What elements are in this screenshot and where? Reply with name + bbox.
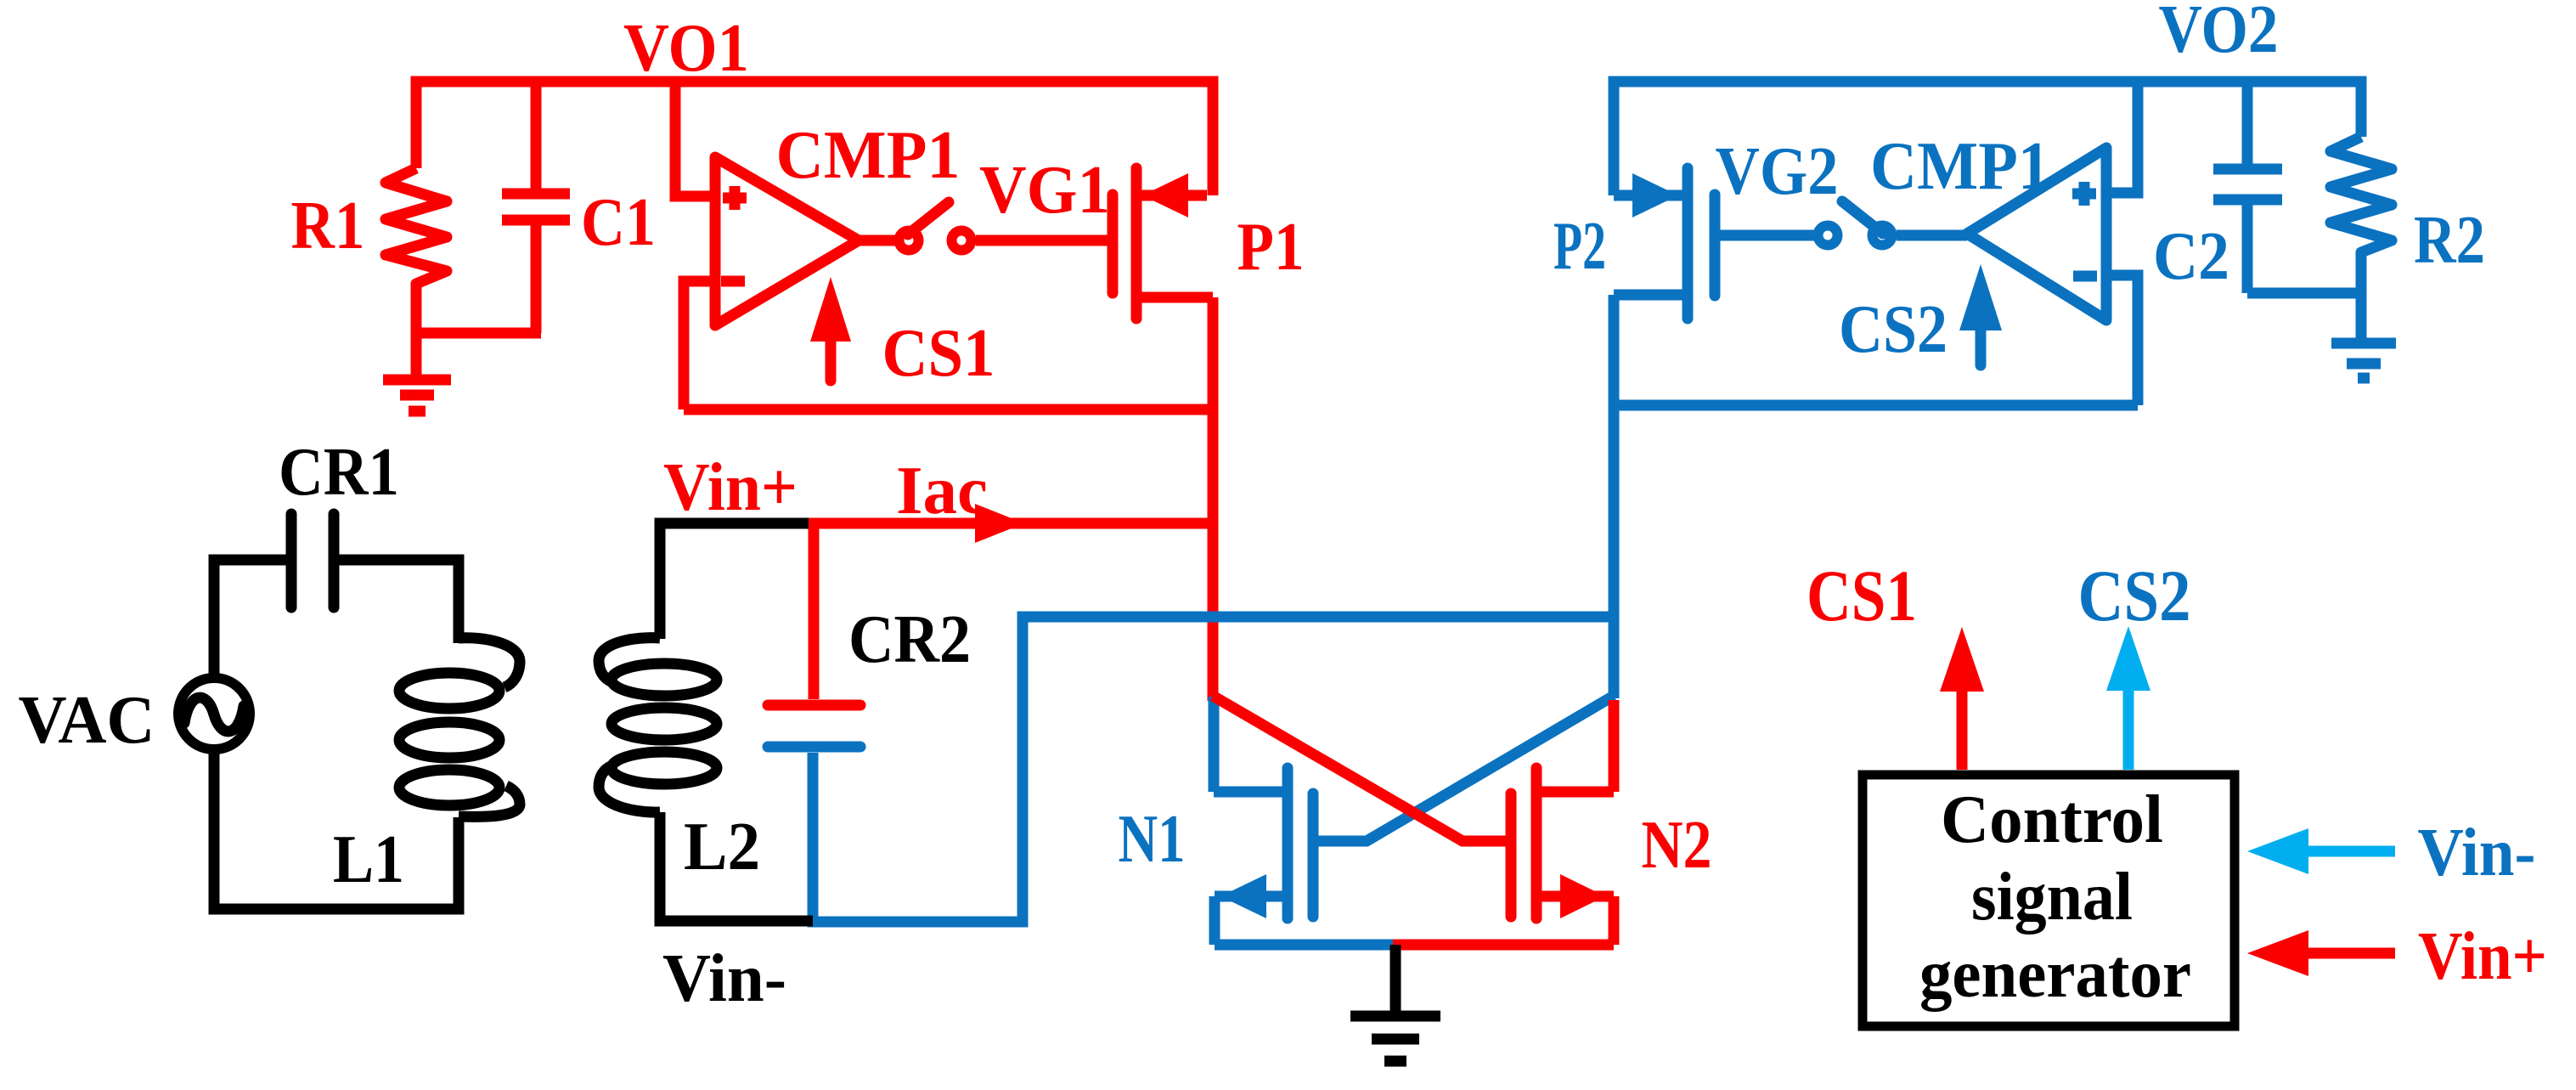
capacitor CR2 top plate	[768, 700, 860, 711]
CMP1 plus input mark	[723, 186, 747, 210]
wire VG2 gate lead	[1720, 230, 1814, 241]
arrow Iac direction	[975, 504, 1024, 543]
wire CMP1 output	[859, 235, 895, 246]
svg-text:CR2: CR2	[848, 602, 971, 677]
arrow CS2 output	[2106, 626, 2150, 770]
wire CR1 left	[214, 560, 286, 674]
svg-text:C1: C1	[581, 185, 656, 260]
capacitor C1	[502, 82, 570, 333]
svg-text:C2: C2	[2153, 219, 2229, 294]
wire VO2 top rail	[1614, 82, 2361, 195]
ground GND2	[2331, 343, 2396, 378]
svg-text:generator: generator	[1919, 937, 2191, 1012]
inductor L1	[399, 638, 520, 817]
svg-text:P2: P2	[1553, 209, 1606, 284]
wire P1 drain down	[1208, 297, 1219, 701]
wire N2 source to ground rail	[1393, 940, 1614, 951]
wire CMP1 -input	[684, 281, 715, 409]
CMP1b minus input mark	[2073, 271, 2097, 282]
svg-text:R2: R2	[2414, 203, 2485, 278]
wire CMP1b bottom rail	[1614, 400, 2138, 411]
wire N1 drain up	[1209, 697, 1220, 792]
source VAC	[178, 678, 250, 749]
wire N1 source to ground rail	[1215, 940, 1398, 951]
svg-text:CMP1: CMP1	[776, 118, 961, 193]
wire VAC to L1 bottom	[214, 754, 459, 909]
wire CR2 top lead	[809, 523, 820, 699]
wire R1-C1 bottom	[416, 328, 541, 339]
transistor N1	[1214, 768, 1313, 918]
svg-text:VG1: VG1	[979, 153, 1110, 228]
wire Iac	[807, 518, 1213, 529]
wire N1 gate diagonal	[1313, 696, 1614, 841]
ground GND1	[383, 333, 451, 411]
wire C2 to R2	[2247, 288, 2361, 299]
capacitor C2	[2213, 82, 2282, 293]
wire N2 source down	[1609, 896, 1620, 945]
capacitor CR2 bottom plate	[768, 742, 860, 753]
svg-text:CR1: CR1	[279, 435, 399, 510]
svg-text:Vin+: Vin+	[2418, 919, 2547, 994]
wire CMP1 bottom rail	[684, 404, 1213, 415]
wire VG1 gate lead	[976, 235, 1108, 246]
capacitor CR1	[291, 514, 334, 607]
wire CR1 right to coil	[339, 560, 459, 643]
svg-text:CS1: CS1	[882, 316, 995, 391]
CMP1 minus input mark	[721, 276, 745, 287]
svg-text:VO2: VO2	[2159, 0, 2279, 67]
wire N2 drain up	[1609, 700, 1620, 792]
inductor L2	[599, 638, 717, 812]
arrow Vin+ input	[2247, 930, 2395, 976]
wire CMP1b output	[1897, 230, 1967, 241]
svg-text:CS2: CS2	[2078, 555, 2191, 636]
switch SW2	[1818, 201, 1892, 246]
svg-text:R1: R1	[291, 189, 365, 263]
wire CMP1b -input	[2106, 275, 2138, 405]
wire CMP1 +input	[675, 82, 715, 196]
transistor N2	[1511, 768, 1614, 918]
arrow Vin- input	[2247, 828, 2395, 874]
wire L2 bottom	[660, 812, 813, 921]
arrow CS2 control input	[1959, 264, 2002, 365]
wire Vin- rail CR2 to P2 drain	[813, 617, 1609, 922]
CMP1b plus input mark	[2072, 182, 2096, 206]
wire L2 top	[660, 523, 809, 639]
arrow CS1 control input	[810, 277, 851, 381]
transistor P1	[1113, 168, 1213, 319]
wire CMP1b +input	[2106, 82, 2138, 193]
svg-text:Vin+: Vin+	[663, 450, 798, 525]
resistor R2	[2331, 137, 2392, 293]
svg-text:VAC: VAC	[19, 683, 155, 758]
svg-text:Iac: Iac	[896, 454, 988, 528]
svg-text:VO1: VO1	[623, 11, 749, 86]
svg-text:signal: signal	[1971, 860, 2133, 935]
svg-text:L1: L1	[333, 822, 404, 897]
switch SW1	[899, 202, 972, 251]
svg-text:N2: N2	[1642, 808, 1712, 883]
arrow CS1 output	[1940, 627, 1984, 770]
wire VO1 top rail	[416, 82, 1213, 195]
wire P2 drain down	[1609, 295, 1620, 698]
svg-text:L2: L2	[684, 810, 760, 884]
transistor P2	[1614, 168, 1715, 319]
op-amp CMP1 blue	[1967, 148, 2106, 320]
svg-text:CS2: CS2	[1839, 292, 1948, 367]
svg-text:Control: Control	[1941, 782, 2163, 857]
svg-text:N1: N1	[1119, 802, 1186, 877]
resistor R1	[386, 168, 447, 333]
control signal generator box	[1863, 775, 2235, 1026]
svg-text:VG2: VG2	[1716, 134, 1839, 209]
svg-text:Vin-: Vin-	[2418, 816, 2536, 890]
svg-text:P1: P1	[1237, 210, 1305, 285]
wire N2 gate diagonal	[1213, 696, 1511, 841]
svg-text:Vin-: Vin-	[662, 941, 786, 1016]
svg-text:CS1: CS1	[1807, 555, 1917, 636]
ground GND main	[1350, 945, 1440, 1061]
wire R2 to ground	[2356, 293, 2367, 340]
wire N1 source down	[1209, 896, 1220, 945]
op-amp CMP1	[715, 157, 859, 325]
